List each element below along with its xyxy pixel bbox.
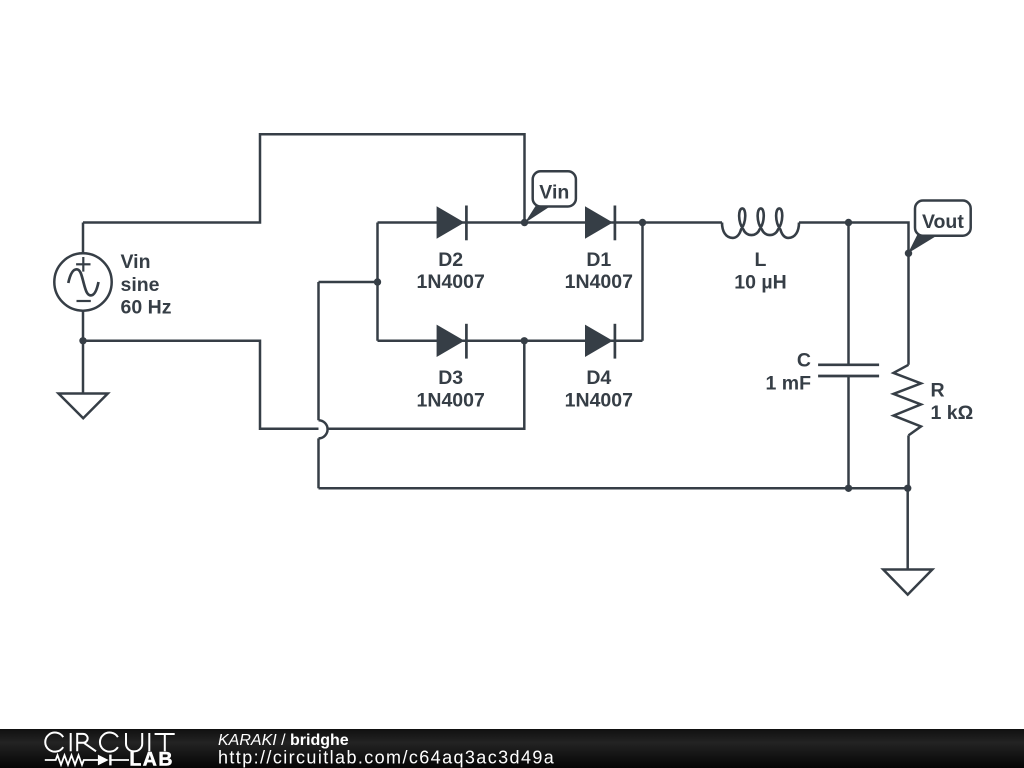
ground (left) — [59, 394, 108, 419]
letter C — [100, 733, 118, 752]
svg-text:R: R — [931, 380, 945, 402]
wire hop (crossover arc) — [319, 420, 328, 438]
wire right ground lead — [906, 488, 909, 569]
label C — [765, 349, 811, 394]
svg-text:D2: D2 — [438, 249, 463, 271]
svg-text:Vout: Vout — [922, 211, 964, 233]
svg-text:LAB: LAB — [129, 749, 174, 768]
wire source bottom lead — [82, 311, 85, 341]
voltage source V1 — [54, 253, 111, 310]
node dot rail cap — [845, 485, 852, 492]
svg-text:1 kΩ: 1 kΩ — [931, 402, 974, 424]
wire hop column lower segment — [317, 438, 320, 488]
diode D3 — [437, 324, 467, 359]
svg-text:KARAKI / bridghe: KARAKI / bridghe — [218, 732, 349, 749]
letter I — [70, 733, 72, 751]
node dot cap top — [845, 219, 852, 226]
wire top diode row — [378, 221, 643, 224]
wire capacitor bottom lead — [847, 376, 850, 488]
resistor R — [894, 365, 922, 436]
wire capacitor top lead — [847, 223, 850, 365]
diode D4 — [585, 324, 615, 359]
diode D2 — [437, 206, 467, 241]
node dot source bottom — [79, 337, 86, 344]
svg-text:C: C — [797, 349, 811, 371]
wire inductor to output corner — [799, 223, 909, 365]
letter I — [148, 733, 150, 751]
letter C — [45, 733, 63, 752]
wire bottom diode row — [378, 340, 643, 343]
svg-text:1N4007: 1N4007 — [565, 271, 633, 293]
node dot bridge output — [639, 219, 646, 226]
wire bridge left vertical — [376, 223, 379, 341]
inductor L — [722, 208, 799, 238]
capacitor C — [818, 365, 879, 376]
svg-text:D3: D3 — [438, 367, 463, 389]
svg-text:1 mF: 1 mF — [765, 372, 811, 394]
label R — [931, 380, 974, 425]
svg-text:1N4007: 1N4007 — [565, 389, 633, 411]
label D1 — [565, 249, 633, 293]
label D3 — [417, 367, 485, 411]
flag Vout callout — [908, 201, 971, 254]
label V1: Vin sine 60 Hz — [121, 251, 172, 318]
svg-text:1N4007: 1N4007 — [417, 271, 485, 293]
svg-text:60 Hz: 60 Hz — [121, 296, 172, 318]
wire source bottom to AC2 (down-around path) — [83, 341, 524, 429]
node dot bridge AC2 — [374, 278, 381, 285]
letter R — [77, 734, 96, 751]
wire left ground lead — [82, 341, 85, 394]
wire bridge right vertical — [641, 223, 644, 341]
wire bottom rail — [319, 487, 908, 490]
svg-text:sine: sine — [121, 274, 160, 296]
label D4 — [565, 367, 633, 411]
svg-text:http://circuitlab.com/c64aq3ac: http://circuitlab.com/c64aq3ac3d49a — [218, 747, 555, 767]
label L — [734, 249, 786, 293]
svg-text:10 µH: 10 µH — [734, 272, 786, 294]
svg-text:Vin: Vin — [539, 182, 569, 204]
wire mid stub to hop column — [319, 281, 378, 284]
logo resistor-diode squiggle — [45, 755, 129, 766]
wire resistor bottom lead — [907, 435, 910, 488]
logo CIRCUIT letters — [45, 733, 174, 752]
node dot Vout junction — [905, 250, 912, 257]
svg-text:D1: D1 — [586, 249, 611, 271]
svg-text:D4: D4 — [586, 367, 611, 389]
flag Vin callout — [525, 171, 576, 223]
node dot Vin junction — [521, 219, 528, 226]
svg-text:L: L — [755, 249, 767, 271]
ground (right) — [883, 570, 932, 595]
node dot bottom diode row mid — [521, 337, 528, 344]
wire bridge output to inductor — [643, 221, 723, 224]
node dot rail ground — [904, 485, 911, 492]
diode D1 — [585, 206, 615, 241]
label D2 — [417, 249, 485, 293]
svg-text:1N4007: 1N4007 — [417, 389, 485, 411]
letter T — [155, 734, 175, 751]
wire source top to bridge AC1 (up-over path) — [83, 134, 525, 222]
wire top lead of source — [82, 223, 85, 254]
wire hop column upper segment — [317, 282, 320, 420]
letter U — [126, 733, 142, 751]
svg-text:Vin: Vin — [121, 251, 151, 273]
